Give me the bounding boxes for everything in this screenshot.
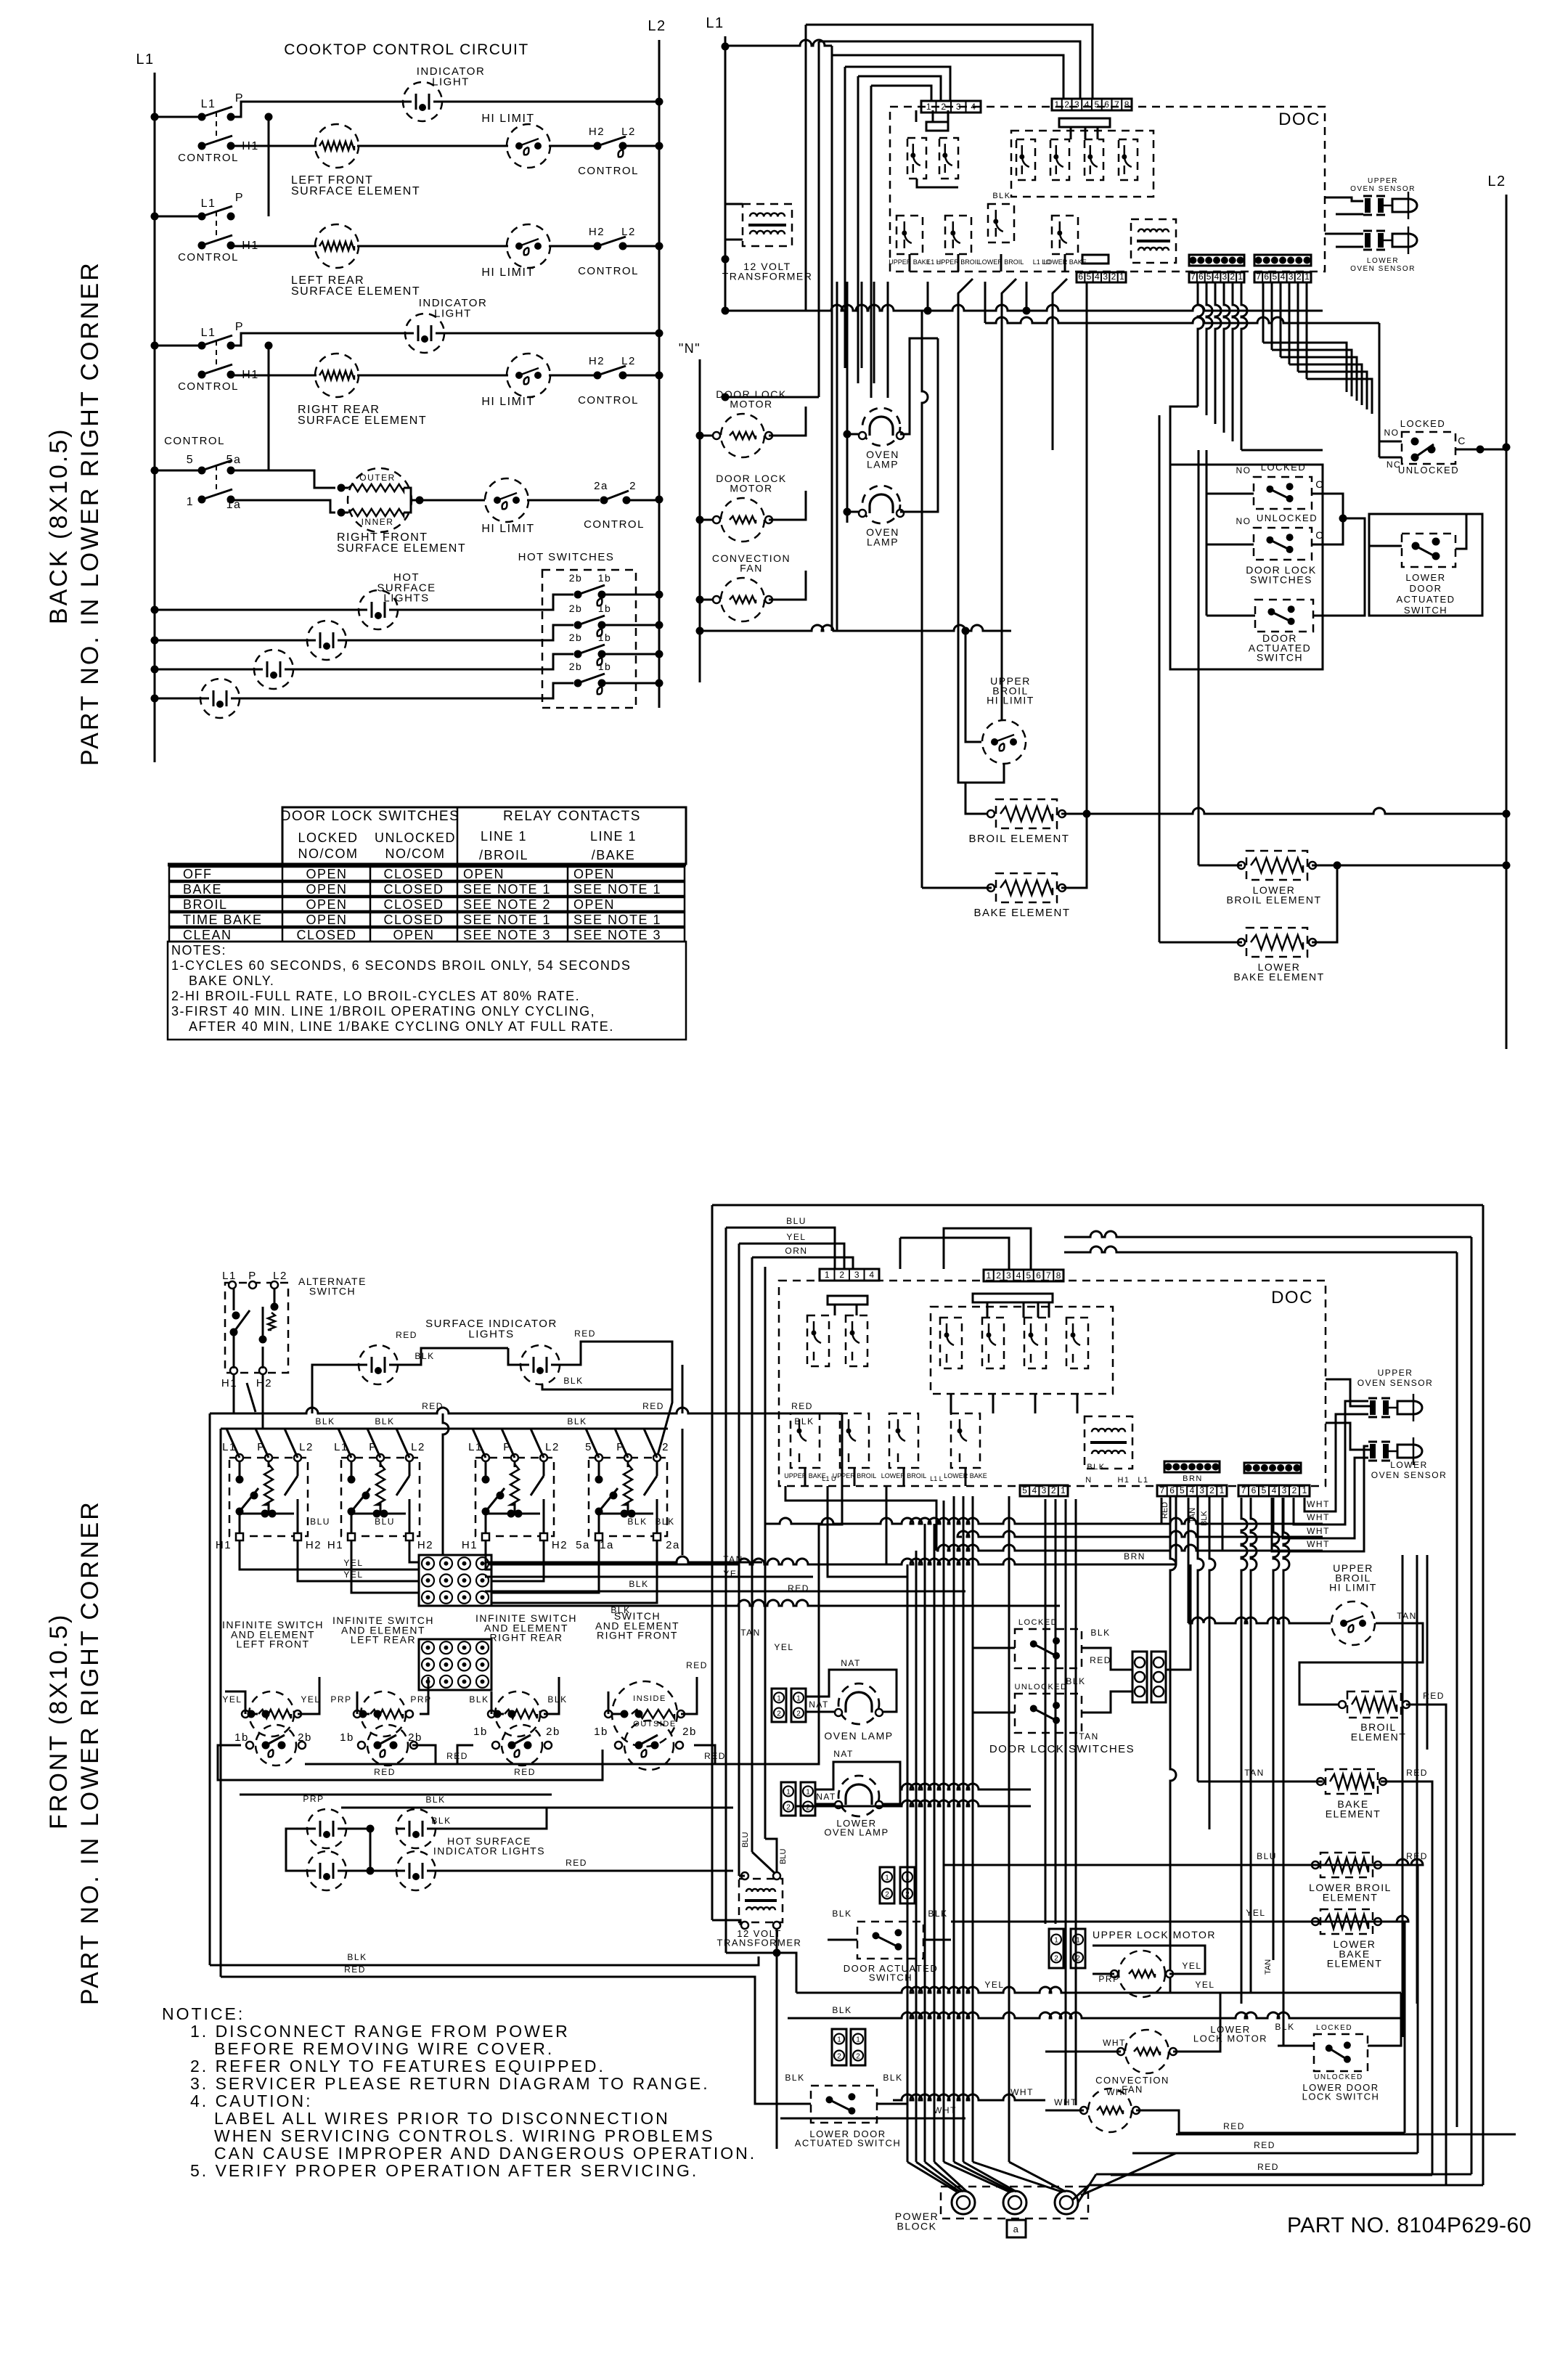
svg-text:1b: 1b xyxy=(594,1726,608,1738)
junction xyxy=(482,1508,490,1516)
junction xyxy=(924,307,932,315)
wire xyxy=(861,282,863,368)
relay K2 xyxy=(939,138,958,179)
junction xyxy=(508,1742,516,1750)
2-pin connector xyxy=(1049,1929,1063,1968)
wire hsl RED right xyxy=(436,1870,733,1872)
junction xyxy=(574,591,582,599)
wire xyxy=(1055,1499,1057,1924)
svg-text:LOCKED: LOCKED xyxy=(1400,418,1445,429)
wire xyxy=(586,1429,599,1458)
svg-text:5: 5 xyxy=(1273,272,1278,282)
wire BLK to ldls xyxy=(1283,2045,1314,2047)
wire xyxy=(226,1429,240,1458)
svg-text:RED: RED xyxy=(1223,2121,1245,2131)
wire PRP row xyxy=(240,1794,552,1796)
wire nest 6 xyxy=(871,86,931,101)
svg-text:INSIDE: INSIDE xyxy=(633,1694,666,1703)
connector pins front B xyxy=(1244,1463,1301,1473)
wire L2 oven bus xyxy=(1506,195,1508,1049)
junction xyxy=(656,98,663,106)
svg-text:L1: L1 xyxy=(136,52,154,68)
junction xyxy=(262,1742,270,1750)
junction xyxy=(628,1510,636,1518)
relay LOWER BROIL front xyxy=(889,1413,918,1468)
wire lamp1 right xyxy=(900,338,938,434)
junction xyxy=(507,1510,515,1518)
svg-text:YEL: YEL xyxy=(222,1694,242,1705)
wire xyxy=(780,2118,965,2120)
svg-text:2: 2 xyxy=(786,1804,791,1812)
svg-text:TAN: TAN xyxy=(1397,1611,1417,1621)
lower lock motor xyxy=(1117,2030,1177,2073)
svg-text:4: 4 xyxy=(1214,272,1220,282)
junction xyxy=(259,1336,267,1344)
junction xyxy=(380,1510,388,1518)
svg-text:1: 1 xyxy=(777,1694,781,1702)
junction xyxy=(722,393,730,401)
svg-text:1b: 1b xyxy=(598,661,612,672)
left rear surface element xyxy=(315,224,359,268)
junction xyxy=(151,467,159,475)
wire band 2172 xyxy=(828,1486,907,1619)
svg-text:1: 1 xyxy=(1076,1937,1080,1945)
svg-text:YEL: YEL xyxy=(1246,1908,1265,1918)
junction xyxy=(151,695,159,703)
svg-text:OUTSIDE: OUTSIDE xyxy=(633,1720,676,1729)
svg-text:/BAKE: /BAKE xyxy=(592,848,636,862)
lower oven sensor (back) xyxy=(1363,226,1417,254)
svg-text:SURFACE ELEMENT: SURFACE ELEMENT xyxy=(337,542,466,555)
wire xyxy=(1000,254,1003,272)
wire left bundle v1 xyxy=(711,1205,714,1920)
svg-text:SWITCH: SWITCH xyxy=(869,1972,912,1983)
connector front 5-1 xyxy=(1020,1485,1068,1496)
broil element (back) xyxy=(987,799,1066,828)
hot surface indicator light 4 xyxy=(396,1851,436,1890)
wire xyxy=(1206,282,1212,415)
svg-text:OVEN SENSOR: OVEN SENSOR xyxy=(1350,185,1416,193)
relay K5 xyxy=(1085,139,1103,180)
svg-text:OPEN: OPEN xyxy=(573,867,615,881)
wire xyxy=(903,1468,905,1486)
junction xyxy=(635,1710,643,1718)
svg-text:MOTOR: MOTOR xyxy=(730,482,772,494)
svg-text:RED: RED xyxy=(704,1751,726,1761)
oven lamp 1 xyxy=(859,408,904,446)
wire nest vertical 3 xyxy=(831,46,833,631)
junction xyxy=(610,1492,618,1500)
svg-text:LIGHTS: LIGHTS xyxy=(468,1328,514,1340)
svg-text:BLK: BLK xyxy=(547,1694,567,1705)
junction xyxy=(230,1328,238,1336)
svg-text:BLK: BLK xyxy=(347,1952,367,1962)
wire xyxy=(963,1496,965,2162)
wire hsl link xyxy=(346,1829,396,1871)
svg-text:3: 3 xyxy=(1282,1485,1287,1495)
wire ulm loop xyxy=(1093,1946,1205,1974)
svg-text:5. VERIFY PROPER OPERATION AFT: 5. VERIFY PROPER OPERATION AFTER SERVICI… xyxy=(190,2161,698,2180)
indicator light row1 xyxy=(403,82,442,121)
svg-text:UPPER: UPPER xyxy=(1378,1368,1413,1378)
wire xyxy=(958,279,973,783)
wire xfmr join xyxy=(726,1952,777,1954)
junction xyxy=(390,1742,398,1750)
wire element to hi limit xyxy=(357,145,508,147)
svg-text:PART NO. 8104P629-60: PART NO. 8104P629-60 xyxy=(1287,2213,1532,2237)
svg-text:MOTOR: MOTOR xyxy=(730,398,772,409)
2-pin connector xyxy=(772,1689,786,1722)
wire to lower broil element xyxy=(1198,450,1200,865)
svg-text:DOC: DOC xyxy=(1271,1288,1313,1307)
svg-text:BLK: BLK xyxy=(794,1416,814,1427)
wire xyxy=(1085,127,1087,139)
wire RED loop right xyxy=(802,1413,842,1764)
wire hot switch 3 to L2 xyxy=(605,653,659,656)
svg-text:2-HI BROIL-FULL RATE, LO BROIL: 2-HI BROIL-FULL RATE, LO BROIL-CYCLES AT… xyxy=(171,989,580,1003)
svg-text:RED: RED xyxy=(686,1660,708,1670)
hot switches dashed box xyxy=(542,570,636,708)
junction xyxy=(651,1742,659,1750)
wire lower broil in xyxy=(944,1859,1423,1865)
wire 1b lf xyxy=(218,1745,247,1780)
svg-text:WHT: WHT xyxy=(1054,2097,1077,2107)
svg-text:7: 7 xyxy=(1160,1485,1165,1495)
connector P2 1-8 xyxy=(1052,99,1132,110)
svg-text:1b: 1b xyxy=(598,632,612,643)
junction xyxy=(271,1303,279,1311)
wire xyxy=(1222,1498,1224,1551)
svg-text:HI LIMIT: HI LIMIT xyxy=(481,523,534,535)
wire sil right down xyxy=(682,1365,684,1413)
junction xyxy=(656,650,663,658)
svg-text:UPPER LOCK MOTOR: UPPER LOCK MOTOR xyxy=(1093,1929,1216,1940)
svg-text:OPEN: OPEN xyxy=(306,897,347,912)
svg-text:BROIL ELEMENT: BROIL ELEMENT xyxy=(1226,894,1321,905)
wire xyxy=(240,1540,419,1570)
svg-text:1: 1 xyxy=(1238,272,1243,282)
svg-text:RIGHT REAR: RIGHT REAR xyxy=(489,1632,563,1644)
svg-text:RED: RED xyxy=(1406,1768,1428,1778)
wire P1 to relays xyxy=(932,110,934,122)
wire band 2117 xyxy=(957,1531,1323,1537)
svg-text:UNLOCKED: UNLOCKED xyxy=(1014,1683,1067,1691)
connector pins A xyxy=(1189,255,1244,266)
wire dls to brn xyxy=(1166,1564,1191,1670)
svg-text:RELAY CONTACTS: RELAY CONTACTS xyxy=(503,809,641,824)
wire relay pair stub2 xyxy=(856,1305,858,1315)
svg-text:SEE NOTE 1: SEE NOTE 1 xyxy=(573,913,661,927)
wire xyxy=(1009,2162,1066,2192)
wire to door actuated sw xyxy=(1206,615,1255,617)
svg-text:ORN: ORN xyxy=(785,1246,807,1256)
wire element to hi limit row3 xyxy=(357,375,508,377)
wire xyxy=(298,1677,319,1714)
svg-text:1: 1 xyxy=(837,2036,841,2044)
svg-text:4: 4 xyxy=(1095,272,1100,282)
wire grid YEL xyxy=(485,1576,813,1578)
wire xfmr out down xyxy=(776,1930,778,2149)
svg-text:SWITCHES: SWITCHES xyxy=(1250,574,1312,585)
svg-text:H1: H1 xyxy=(216,1539,232,1551)
svg-text:ACTUATED: ACTUATED xyxy=(1396,594,1455,605)
infinite element left front xyxy=(249,1691,294,1736)
svg-text:WHT: WHT xyxy=(1307,1526,1330,1536)
left front surface element xyxy=(315,124,359,168)
svg-text:4: 4 xyxy=(1190,1485,1195,1495)
wire P to indicator row3 xyxy=(231,333,407,346)
DOC control dashed box (back) xyxy=(890,107,1325,272)
svg-text:8: 8 xyxy=(1124,99,1130,110)
svg-text:3. SERVICER PLEASE RETURN DIAG: 3. SERVICER PLEASE RETURN DIAGRAM TO RAN… xyxy=(190,2074,710,2093)
junction xyxy=(773,1949,781,1957)
infinite switch left rear xyxy=(341,1458,420,1536)
wire H1 to element row3 xyxy=(231,375,317,377)
upper broil hi limit (back) xyxy=(982,720,1026,764)
wire xyxy=(1215,282,1221,424)
wire xyxy=(915,1551,918,2162)
wire frame0 bottom xyxy=(1073,2185,1483,2200)
wire xyxy=(1482,1205,1485,2185)
door actuated switch (front) xyxy=(857,1922,923,1959)
wire xyxy=(367,1429,380,1458)
svg-text:OVEN LAMP: OVEN LAMP xyxy=(824,1827,889,1837)
svg-text:3: 3 xyxy=(854,1270,859,1280)
wire locked/unlocked common xyxy=(1312,494,1343,544)
svg-text:6: 6 xyxy=(1104,99,1109,110)
wire xyxy=(491,1540,657,1603)
svg-text:P: P xyxy=(235,321,244,333)
svg-text:OVEN SENSOR: OVEN SENSOR xyxy=(1350,265,1416,273)
hot surface light lamp 4 xyxy=(200,679,240,718)
svg-text:BLK: BLK xyxy=(1090,1628,1110,1638)
svg-text:C: C xyxy=(1315,478,1324,490)
svg-text:L2: L2 xyxy=(621,226,636,238)
svg-text:1b: 1b xyxy=(598,572,612,584)
svg-text:NO: NO xyxy=(1384,428,1400,438)
wire xyxy=(873,282,875,383)
wire to motor 2 xyxy=(700,519,717,521)
svg-text:1: 1 xyxy=(885,1874,889,1882)
wire RED row1 xyxy=(305,1763,802,1766)
svg-text:4: 4 xyxy=(1085,99,1090,110)
infinite element right rear xyxy=(495,1691,540,1736)
wire light 3 to hot switch xyxy=(293,654,573,669)
svg-text:4: 4 xyxy=(971,102,976,112)
svg-text:5: 5 xyxy=(1026,1270,1032,1281)
junction xyxy=(362,1492,370,1500)
wire to upper sensor 2 xyxy=(1336,213,1363,216)
svg-text:2: 2 xyxy=(1076,1954,1080,1962)
wire xyxy=(155,669,254,671)
svg-text:FRONT (8X10.5): FRONT (8X10.5) xyxy=(45,1613,73,1829)
junction xyxy=(722,43,730,51)
svg-text:H2: H2 xyxy=(417,1539,433,1551)
wire xyxy=(1034,1394,1037,1413)
svg-text:1-CYCLES 60 SECONDS, 6 SECONDS: 1-CYCLES 60 SECONDS, 6 SECONDS BROIL ONL… xyxy=(171,958,631,973)
junction xyxy=(722,256,730,264)
wire xyxy=(155,640,307,642)
wire xyxy=(887,282,889,398)
wire nest 1 xyxy=(806,25,1093,99)
wire xyxy=(924,1524,926,2162)
door actuated switch (back) xyxy=(1255,600,1313,632)
svg-text:UNLOCKED: UNLOCKED xyxy=(1257,513,1318,523)
svg-text:NAT: NAT xyxy=(841,1658,861,1668)
wire lamp loop NAT xyxy=(806,1670,897,1712)
wire xyxy=(987,1302,989,1318)
wire xfmr blu2 xyxy=(765,1839,777,1872)
svg-text:LOCK MOTOR: LOCK MOTOR xyxy=(1193,2033,1267,2044)
svg-text:BACK (8X10.5): BACK (8X10.5) xyxy=(45,428,73,624)
svg-text:TAN: TAN xyxy=(1079,1731,1099,1742)
wire L1 bus xyxy=(154,73,156,762)
svg-text:RED: RED xyxy=(565,1858,587,1868)
svg-text:LOWER: LOWER xyxy=(1390,1460,1428,1470)
wire xyxy=(846,282,849,523)
wire xyxy=(1280,282,1282,357)
wire xyxy=(1008,1496,1010,2162)
svg-text:WHT: WHT xyxy=(1010,2087,1034,2097)
wire xyxy=(944,1228,1031,1270)
svg-text:BAKE: BAKE xyxy=(183,882,222,897)
svg-text:LIGHT: LIGHT xyxy=(432,75,470,88)
3-pin connectors dls xyxy=(1132,1652,1147,1702)
wire hsl left xyxy=(286,1829,307,1871)
svg-text:BLK: BLK xyxy=(883,2073,902,2083)
svg-text:LOWER: LOWER xyxy=(1367,257,1399,265)
junction xyxy=(1477,446,1485,454)
junction xyxy=(656,372,663,380)
2-pin connector xyxy=(832,2029,846,2065)
wire hi limit to control row4 xyxy=(527,499,600,502)
junction xyxy=(278,1742,286,1750)
svg-text:2b: 2b xyxy=(569,661,583,672)
wire NC in xyxy=(1379,457,1402,459)
wire N bus xyxy=(699,359,701,682)
svg-text:2: 2 xyxy=(885,1891,889,1899)
wire nest vertical 1 xyxy=(805,25,807,311)
svg-text:8: 8 xyxy=(1056,1270,1061,1281)
relay UPPER BROIL front xyxy=(840,1413,869,1468)
svg-text:1: 1 xyxy=(796,1694,801,1702)
wire xyxy=(1065,1499,1067,2105)
junction xyxy=(374,1742,382,1750)
connector 7-1 A xyxy=(1189,272,1244,282)
svg-text:INNER: INNER xyxy=(362,517,394,527)
wire nest 2 xyxy=(819,41,1080,99)
wire xyxy=(644,1429,657,1458)
svg-text:BLK: BLK xyxy=(928,1909,947,1919)
wire lamp2 left lead xyxy=(847,511,862,513)
svg-text:SEE NOTE 1: SEE NOTE 1 xyxy=(463,913,551,927)
svg-text:L1 U: L1 U xyxy=(822,1475,836,1482)
svg-text:2: 2 xyxy=(856,2053,860,2061)
wire upper sensor front xyxy=(1326,1379,1370,1406)
wire RED row2 xyxy=(247,1750,603,1780)
connector pins B xyxy=(1254,255,1311,266)
wire frame1 bottom xyxy=(1096,2174,1471,2176)
svg-text:OVEN SENSOR: OVEN SENSOR xyxy=(1371,1470,1447,1480)
svg-text:1: 1 xyxy=(1302,1485,1307,1495)
wire ldls in xyxy=(1278,2045,1314,2047)
svg-text:1: 1 xyxy=(926,102,931,112)
svg-text:LOCKED: LOCKED xyxy=(1316,2024,1352,2032)
wire xyxy=(915,110,918,122)
wire v 1952 xyxy=(1416,1555,1418,2004)
relay K6 xyxy=(1119,139,1138,180)
wire band 2136 xyxy=(936,1545,1323,1551)
wire xyxy=(351,1540,419,1593)
upper broil hi limit (front) xyxy=(1331,1601,1375,1645)
wire hot switch 4 to L2 xyxy=(605,682,659,685)
wire xyxy=(356,1691,359,1714)
wire WHT 4 xyxy=(1272,1446,1368,1551)
junction xyxy=(494,1710,502,1718)
table row BAKE xyxy=(169,882,685,896)
svg-text:2: 2 xyxy=(839,1270,844,1280)
door lock motor 1 xyxy=(713,414,772,457)
wire xyxy=(795,1800,1031,1806)
svg-text:BLK: BLK xyxy=(627,1517,647,1527)
svg-text:LINE 1: LINE 1 xyxy=(481,829,527,844)
wire xyxy=(1048,1302,1050,1318)
junction xyxy=(1083,810,1091,818)
wire xyxy=(1262,282,1265,343)
svg-text:LIGHTS: LIGHTS xyxy=(383,592,429,605)
relay K3 xyxy=(1016,139,1035,180)
svg-text:L1 LO: L1 LO xyxy=(1033,258,1051,266)
wire L1 to switch row2 xyxy=(155,216,202,218)
wire xyxy=(1241,282,1247,450)
wire xyxy=(1023,1302,1025,1318)
svg-text:1. DISCONNECT RANGE FROM POWER: 1. DISCONNECT RANGE FROM POWER xyxy=(190,2022,570,2041)
svg-text:YEL: YEL xyxy=(343,1570,363,1580)
svg-text:P: P xyxy=(248,1270,257,1282)
svg-text:TRANSFORMER: TRANSFORMER xyxy=(722,270,813,282)
wire to unlocked sw xyxy=(1206,544,1254,546)
wire connB v3 xyxy=(1273,1498,1279,1960)
junction xyxy=(338,509,346,517)
svg-text:L1: L1 xyxy=(201,98,216,110)
svg-text:4: 4 xyxy=(1032,1485,1037,1495)
svg-text:BAKE ONLY.: BAKE ONLY. xyxy=(189,974,274,988)
svg-text:3: 3 xyxy=(1074,99,1079,110)
svg-text:ACTUATED SWITCH: ACTUATED SWITCH xyxy=(795,2137,901,2148)
svg-text:RED: RED xyxy=(344,1964,366,1975)
wire control to L2 row2 xyxy=(626,245,659,248)
relay F5 xyxy=(1024,1318,1046,1368)
wire xyxy=(963,2162,1016,2192)
alternate switch box xyxy=(225,1283,288,1373)
junction xyxy=(621,1710,629,1718)
door lock motor 2 xyxy=(713,498,772,542)
2-pin connector xyxy=(791,1689,806,1722)
wire dls out2 xyxy=(1082,1691,1132,1713)
svg-text:2: 2 xyxy=(1051,1485,1056,1495)
wire to locked sw xyxy=(1206,493,1254,495)
wire 2b lr xyxy=(412,1745,436,1764)
svg-text:H2: H2 xyxy=(589,226,605,238)
svg-text:L2: L2 xyxy=(621,355,636,367)
relay cluster dashed box xyxy=(1011,131,1153,197)
wire xyxy=(943,1501,945,2162)
svg-text:BLK: BLK xyxy=(655,1517,674,1527)
svg-text:4. CAUTION:: 4. CAUTION: xyxy=(190,2091,312,2110)
svg-text:3: 3 xyxy=(1199,1485,1204,1495)
svg-text:2: 2 xyxy=(1054,1954,1058,1962)
svg-text:2: 2 xyxy=(806,1804,810,1812)
